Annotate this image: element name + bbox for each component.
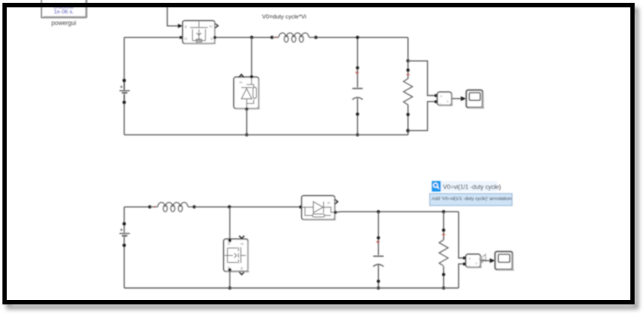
port square S xyxy=(213,36,216,39)
scope Scope1 xyxy=(466,90,484,109)
battery V1 xyxy=(123,79,126,82)
right rail of bottom circuit xyxy=(335,211,458,214)
resistor R1 zigzag xyxy=(404,79,413,105)
MOSFET U2 internals xyxy=(225,247,246,263)
wire VM1 to scope1 with arrowhead xyxy=(452,98,462,100)
search annotation popup xyxy=(430,181,512,206)
arrowhead into g port xyxy=(178,24,183,28)
MOSFET U1 (buck switch) xyxy=(183,21,216,44)
svg-text:v: v xyxy=(475,262,477,266)
svg-text:m: m xyxy=(241,242,244,246)
wire to MOSFET U2 xyxy=(229,207,231,239)
powergui block xyxy=(42,0,88,18)
port square D xyxy=(180,36,183,39)
wire: top rail left (battery top to MOSFET D) xyxy=(124,36,180,38)
svg-text:g: g xyxy=(241,266,243,270)
D2 m chevron (right) xyxy=(335,199,338,204)
diode D1 port dots xyxy=(250,75,253,78)
wires to voltage measurement VM1 xyxy=(408,61,435,96)
node on bottom rail xyxy=(245,133,248,136)
wires to VM2 xyxy=(459,212,464,258)
svg-text:m: m xyxy=(239,80,242,84)
svg-text:Add 'V0=vi(1/1 -duty cycle)' a: Add 'V0=vi(1/1 -duty cycle)' annotation xyxy=(432,196,512,201)
row 2 box xyxy=(430,194,512,206)
scope Scope2 xyxy=(495,252,514,271)
wire: diode to bottom rail xyxy=(246,109,248,135)
wire: diode branch down xyxy=(251,37,253,76)
svg-text:1e-06 s.: 1e-06 s. xyxy=(54,9,75,15)
svg-text:g: g xyxy=(185,24,187,28)
bottom rail of bottom circuit xyxy=(124,287,458,289)
svg-text:powergui: powergui xyxy=(51,20,76,27)
capacitor C1 plates xyxy=(352,88,362,90)
svg-text:D: D xyxy=(185,37,188,41)
wire U2 to bottom rail xyxy=(229,271,231,288)
wire: gate signal from frame to MOSFET g xyxy=(167,7,178,26)
m output chevron of U1 xyxy=(215,23,218,28)
MOSFET U2 (boost switch, vertical) xyxy=(224,239,250,272)
diode D1 internals xyxy=(241,78,256,108)
U2 top-right chevron xyxy=(239,236,244,239)
wire VM2 to scope2 with arrowhead xyxy=(481,260,491,262)
svg-text:m: m xyxy=(327,201,330,205)
U2 port dots xyxy=(228,239,231,242)
MOSFET U1 port labels xyxy=(185,24,214,40)
mouse cursor xyxy=(480,254,486,262)
search icon blue square xyxy=(432,181,441,192)
diode D1 m chevron (up) xyxy=(239,74,244,77)
row 1 light field xyxy=(441,181,498,192)
node: diode tee xyxy=(250,36,253,39)
wire: top rail from S to resistor corner xyxy=(216,36,408,38)
resistor R2 branch xyxy=(443,212,445,240)
diode D2 internals xyxy=(302,202,334,217)
left rail and battery V2 xyxy=(123,207,125,288)
red polarity mark C1 xyxy=(355,71,358,74)
resistor R1 branch xyxy=(407,37,409,61)
diode D1 block xyxy=(234,77,260,109)
capacitor C1 branch xyxy=(357,37,359,87)
red polarity mark R1 xyxy=(406,73,409,76)
capacitor C2 branch xyxy=(377,212,379,255)
svg-text:V0=vi(1/1 -duty cycle): V0=vi(1/1 -duty cycle) xyxy=(443,185,501,191)
top rail of bottom circuit xyxy=(124,206,150,208)
MOSFET U1 internal symbol xyxy=(190,22,208,42)
diode D2 block (horizontal) xyxy=(299,205,302,208)
inductor L1 port dots xyxy=(270,36,273,39)
bottom rail of top circuit xyxy=(124,37,408,134)
voltage measurement VM2 xyxy=(466,254,482,268)
voltage measurement VM1 xyxy=(437,92,452,106)
svg-text:V0=duty cycle*Vi: V0=duty cycle*Vi xyxy=(262,15,306,21)
powergui sample-time text xyxy=(54,4,75,15)
svg-text:D: D xyxy=(228,242,231,246)
inductor L2 coil xyxy=(150,206,195,208)
svg-text:v: v xyxy=(447,99,449,103)
U2 bottom-right chevron xyxy=(239,272,244,275)
MOSFET U2 port labels xyxy=(228,242,244,270)
inductor L1 coil xyxy=(272,36,316,38)
svg-text:m: m xyxy=(209,24,212,28)
